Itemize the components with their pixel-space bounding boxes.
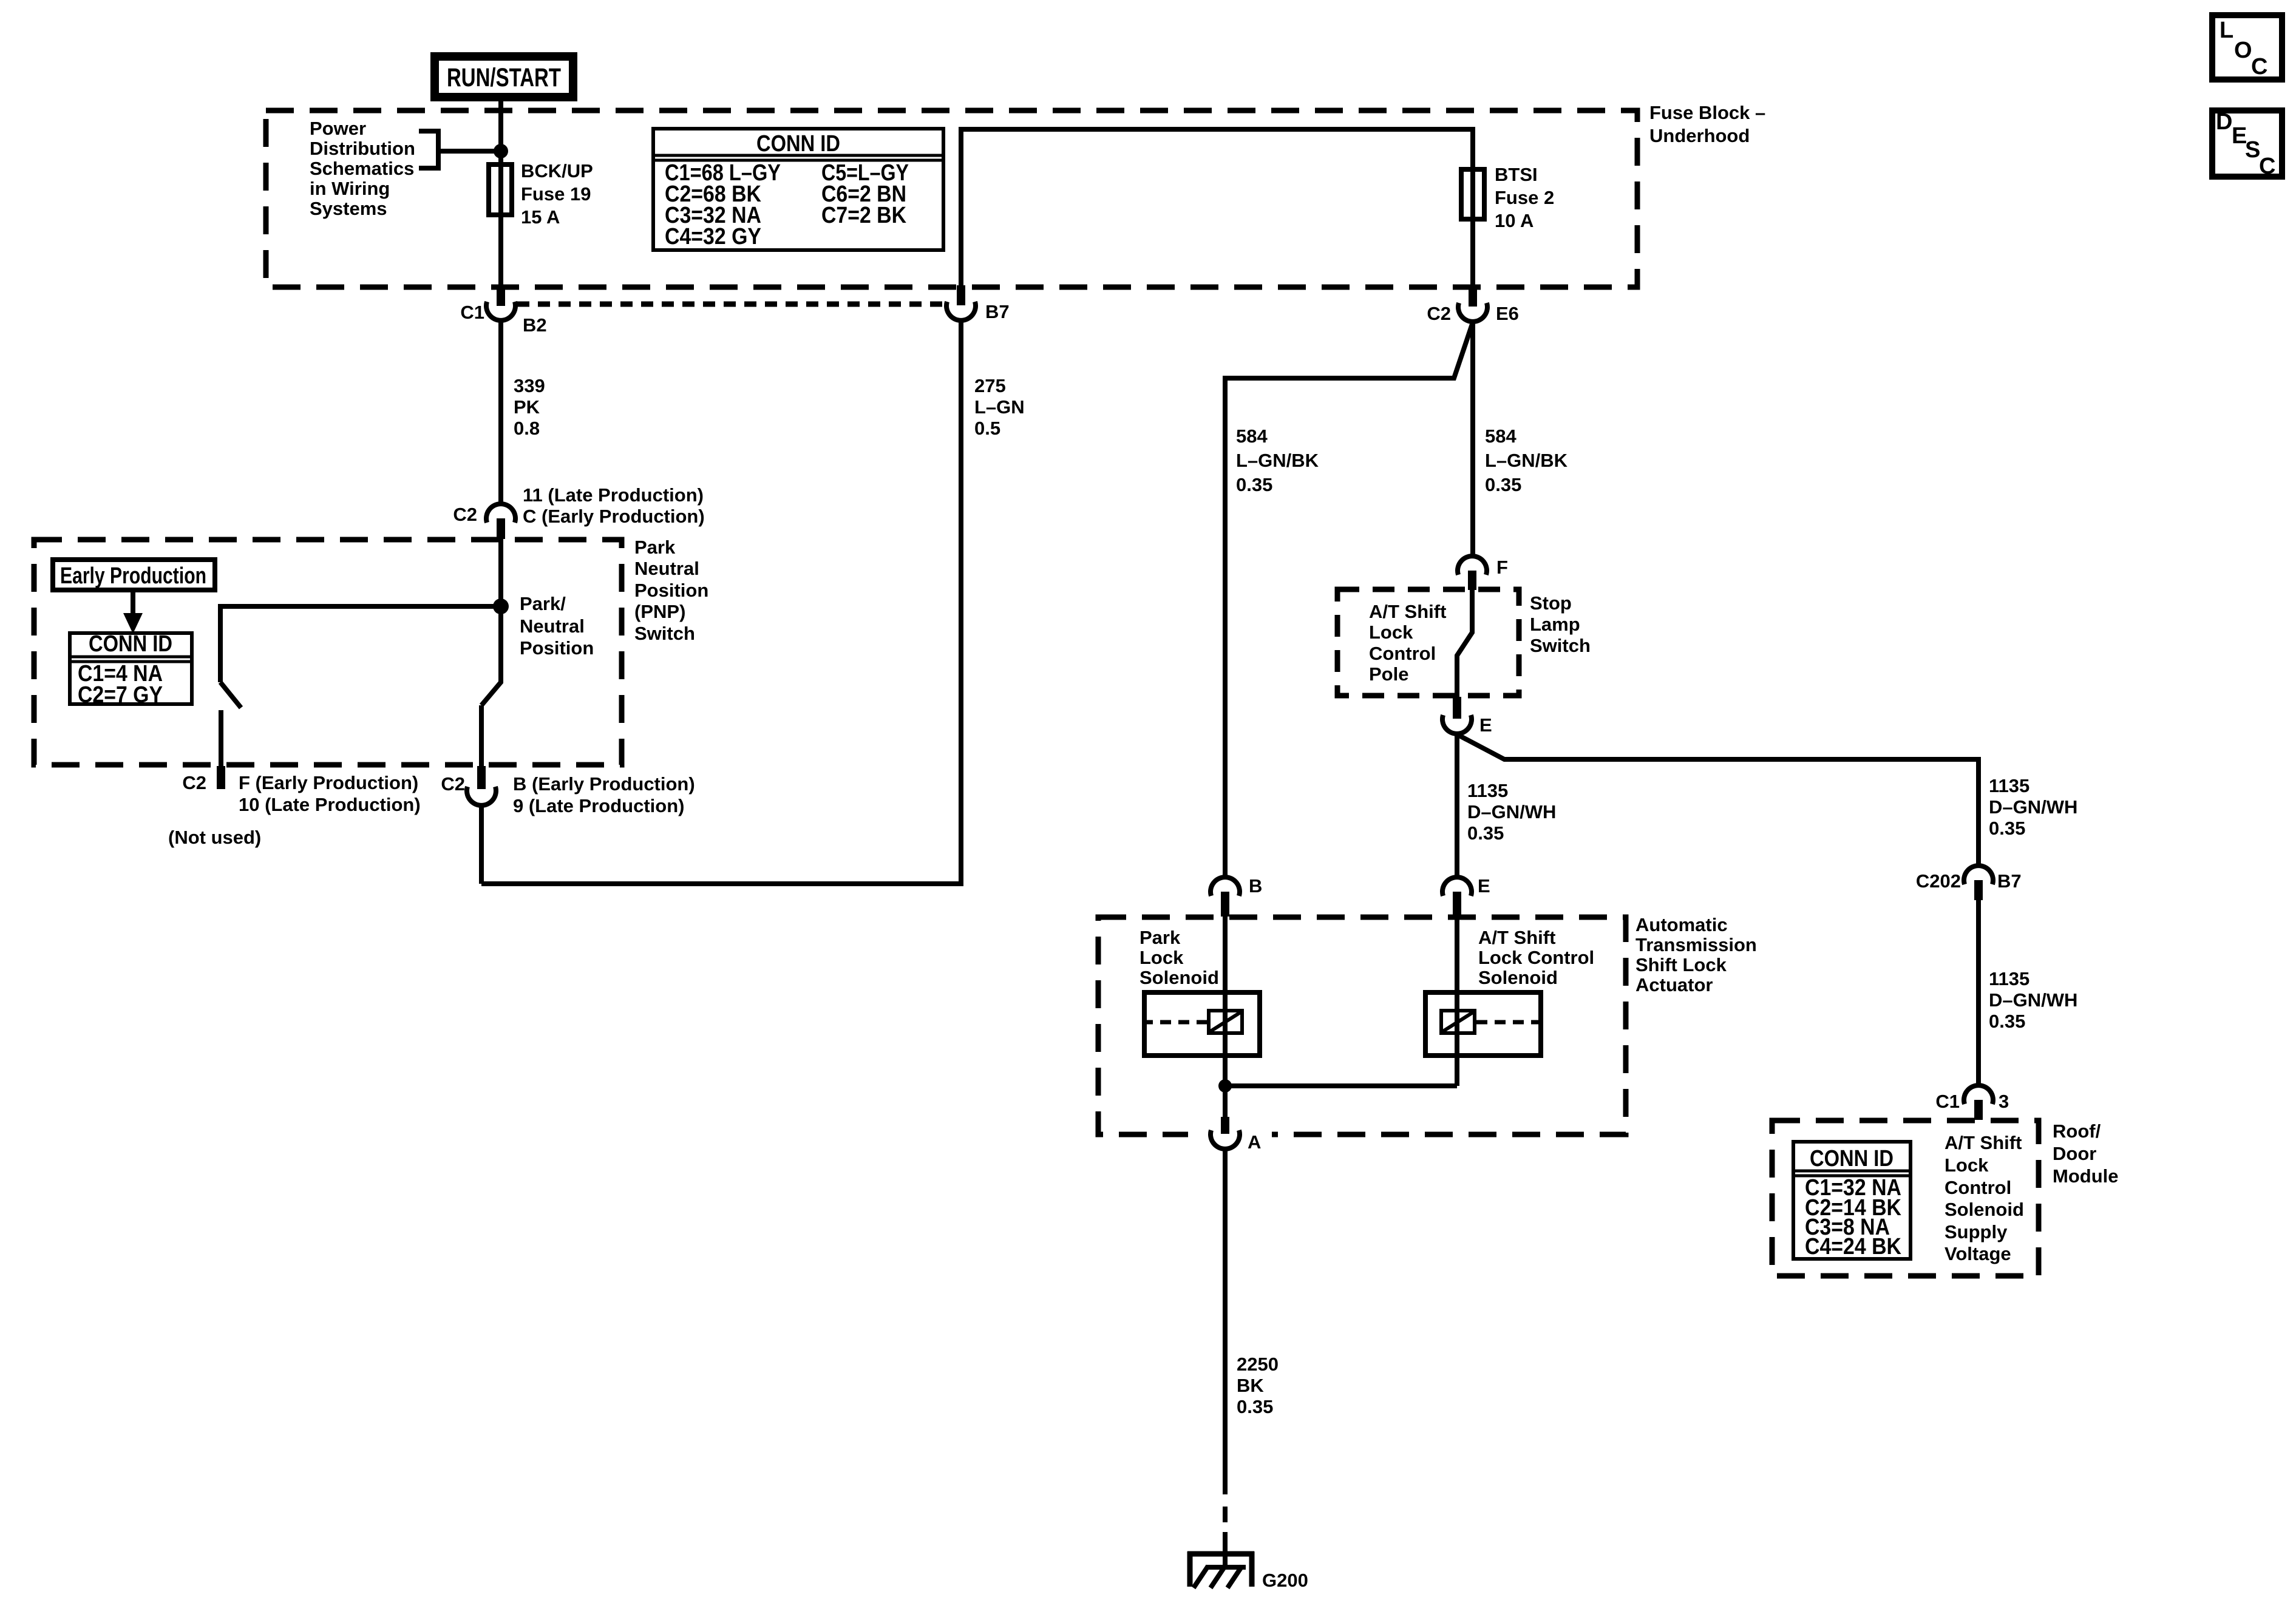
connector C1 pin 3 — [1935, 1085, 2009, 1120]
bracket for power distribution reference — [419, 131, 438, 168]
connector pin F (stop lamp switch) — [1458, 556, 1508, 590]
label BTSI Fuse 2 10 A — [1495, 164, 1554, 231]
svg-text:C2: C2 — [441, 773, 465, 795]
svg-text:D: D — [2216, 109, 2232, 135]
svg-text:C2: C2 — [453, 504, 477, 525]
svg-text:L–GN: L–GN — [974, 396, 1025, 418]
svg-text:F (Early Production): F (Early Production) — [239, 772, 418, 793]
wire ground feed — [1223, 1532, 1228, 1568]
svg-text:Solenoid: Solenoid — [1944, 1199, 2024, 1220]
wire 1135 D-GN/WH diagonal right to C202 — [1458, 735, 1978, 866]
svg-text:15 A: 15 A — [521, 206, 560, 228]
svg-text:Supply: Supply — [1944, 1221, 2008, 1242]
svg-text:RUN/START: RUN/START — [447, 63, 561, 92]
label A/T Shift Lock Control Pole — [1369, 601, 1446, 685]
svg-text:0.35: 0.35 — [1989, 818, 2025, 839]
svg-text:Lamp: Lamp — [1530, 614, 1580, 635]
connector C2 pin F (not used) — [168, 766, 421, 848]
wire 584 L-GN/BK vertical E6 to F — [1470, 321, 1475, 556]
svg-text:Position: Position — [634, 580, 708, 601]
svg-text:C4=32 GY: C4=32 GY — [665, 224, 761, 249]
svg-text:10 A: 10 A — [1495, 210, 1533, 231]
label Park Lock Solenoid — [1140, 927, 1219, 988]
wire PNP branch to early production pole — [220, 606, 501, 682]
wire RUN/START feed down — [498, 101, 503, 289]
svg-text:BTSI: BTSI — [1495, 164, 1538, 185]
label Park/Neutral Position — [520, 593, 594, 659]
svg-text:1135: 1135 — [1989, 968, 2029, 989]
svg-text:Switch: Switch — [634, 623, 695, 644]
svg-text:Position: Position — [520, 637, 594, 659]
label Stop Lamp Switch — [1530, 592, 1591, 656]
DESC index box — [2212, 109, 2282, 179]
svg-text:L–GN/BK: L–GN/BK — [1236, 450, 1319, 471]
label 1135 D-GN/WH 0.35 (right bottom) — [1989, 968, 2077, 1032]
svg-text:A/T Shift: A/T Shift — [1478, 927, 1555, 948]
label 275 L-GN 0.5 — [974, 375, 1025, 439]
svg-text:0.35: 0.35 — [1989, 1011, 2025, 1032]
svg-text:Underhood: Underhood — [1649, 125, 1750, 146]
svg-text:C2: C2 — [182, 772, 206, 793]
svg-text:C: C — [2259, 154, 2275, 179]
svg-text:O: O — [2234, 38, 2252, 63]
A/T shift lock control solenoid — [1425, 992, 1543, 1056]
connector pin E (actuator) — [1442, 875, 1490, 917]
svg-text:Shift Lock: Shift Lock — [1635, 954, 1727, 975]
svg-text:Voltage: Voltage — [1944, 1243, 2011, 1264]
svg-text:BCK/UP: BCK/UP — [521, 160, 593, 181]
svg-text:Fuse Block –: Fuse Block – — [1649, 102, 1765, 123]
wire pin B into park lock solenoid — [1223, 917, 1228, 1086]
connector pin E (stop lamp switch) — [1442, 697, 1492, 736]
svg-text:BK: BK — [1237, 1375, 1264, 1396]
svg-text:CONN ID: CONN ID — [1810, 1146, 1894, 1171]
svg-text:0.35: 0.35 — [1237, 1396, 1273, 1417]
switch blade PNP main — [481, 606, 501, 705]
svg-text:C2: C2 — [1427, 303, 1451, 324]
svg-text:B7: B7 — [985, 301, 1010, 322]
PNP switch dashed box — [34, 540, 622, 765]
connector C2 pin C (PNP input) — [453, 484, 704, 539]
svg-text:Schematics: Schematics — [310, 158, 414, 179]
wire pin E into A/T shift lock control solenoid — [1455, 917, 1459, 1086]
wire early production fixed contact — [219, 710, 223, 767]
CONN ID table (early production PNP) — [68, 631, 194, 708]
svg-text:B: B — [1249, 875, 1262, 897]
svg-text:D–GN/WH: D–GN/WH — [1989, 989, 2077, 1011]
wire 1135 D-GN/WH C202 to roof module — [1976, 900, 1981, 1085]
label Automatic Transmission Shift Lock Actuator — [1635, 914, 1757, 995]
svg-text:Stop: Stop — [1530, 592, 1572, 614]
fuse F2 BTSI 10A — [1461, 169, 1484, 219]
svg-text:Pole: Pole — [1369, 663, 1408, 685]
connector C2 pin E6 — [1427, 288, 1519, 324]
arrow from Early Production box — [131, 592, 135, 615]
svg-text:11 (Late Production): 11 (Late Production) — [523, 484, 704, 506]
wire PNP pin B down — [479, 804, 484, 884]
svg-text:L: L — [2220, 18, 2233, 43]
svg-text:0.8: 0.8 — [514, 418, 540, 439]
svg-text:CONN ID: CONN ID — [89, 631, 172, 657]
svg-text:A/T Shift: A/T Shift — [1369, 601, 1446, 622]
svg-text:C: C — [2251, 54, 2267, 80]
svg-text:B7: B7 — [1997, 870, 2022, 892]
ground G200 — [1187, 1551, 1308, 1591]
svg-text:E: E — [1478, 875, 1490, 897]
wire PNP input — [498, 539, 503, 606]
svg-text:339: 339 — [514, 375, 545, 396]
wire jumper between solenoids — [1225, 1083, 1457, 1088]
svg-text:Lock: Lock — [1140, 947, 1184, 968]
node PNP branch junction — [493, 598, 509, 614]
label Fuse Block Underhood — [1649, 102, 1765, 146]
svg-text:1135: 1135 — [1467, 780, 1508, 801]
svg-text:L–GN/BK: L–GN/BK — [1485, 450, 1568, 471]
wire 1135 D-GN/WH from E down to actuator — [1455, 733, 1459, 877]
fuse block underhood dashed box — [266, 110, 1637, 287]
svg-text:Switch: Switch — [1530, 635, 1591, 656]
label 584 L-GN/BK 0.35 (left) — [1236, 425, 1319, 495]
svg-text:Park: Park — [1140, 927, 1181, 948]
CONN ID table (fuse block) — [651, 129, 945, 250]
connector pin A — [1188, 1086, 1272, 1153]
park lock solenoid — [1142, 992, 1260, 1056]
svg-text:Power: Power — [310, 118, 366, 139]
wire 2250 BK to ground — [1223, 1148, 1228, 1494]
svg-text:Neutral: Neutral — [634, 558, 699, 579]
label A/T Shift Lock Control Solenoid — [1478, 927, 1594, 988]
svg-text:Control: Control — [1369, 643, 1436, 664]
power feed box RUN/START — [435, 56, 573, 97]
svg-text:Door: Door — [2053, 1143, 2096, 1164]
svg-text:Roof/: Roof/ — [2053, 1120, 2101, 1142]
roof/door module dashed box — [1772, 1120, 2039, 1276]
svg-text:Distribution: Distribution — [310, 138, 415, 159]
wire bracket to junction — [438, 149, 501, 154]
svg-text:(Not used): (Not used) — [168, 827, 261, 848]
svg-text:E: E — [1479, 714, 1492, 736]
svg-text:Actuator: Actuator — [1635, 974, 1713, 995]
svg-text:Systems: Systems — [310, 198, 387, 219]
svg-text:C7=2 BK: C7=2 BK — [821, 203, 906, 228]
connector C2 pin B — [441, 766, 695, 816]
node junction on RUN/START feed — [494, 144, 508, 158]
switch blade early production (open) — [220, 682, 241, 708]
svg-text:275: 275 — [974, 375, 1006, 396]
wire fuse block top run to BTSI — [961, 129, 1473, 290]
svg-text:(PNP): (PNP) — [634, 601, 685, 622]
node solenoid common junction — [1218, 1079, 1232, 1093]
svg-text:Fuse 19: Fuse 19 — [521, 183, 591, 205]
label Power Distribution Schematics in Wiring Systems — [310, 118, 415, 219]
svg-text:A/T Shift: A/T Shift — [1944, 1132, 2022, 1153]
svg-text:B (Early Production): B (Early Production) — [513, 773, 695, 795]
label 584 L-GN/BK 0.35 (right) — [1485, 425, 1568, 495]
svg-text:Solenoid: Solenoid — [1140, 967, 1219, 988]
svg-text:C1: C1 — [460, 302, 484, 323]
Early Production callout box — [53, 560, 215, 590]
svg-text:C1: C1 — [1935, 1091, 1960, 1112]
svg-text:in Wiring: in Wiring — [310, 178, 390, 199]
connector C1 pin B7 — [946, 285, 1010, 322]
svg-text:S: S — [2245, 137, 2260, 163]
wire 275 L-GN: B7 down, left to PNP pin B — [481, 319, 961, 884]
svg-text:0.35: 0.35 — [1236, 474, 1272, 495]
svg-text:Transmission: Transmission — [1635, 934, 1757, 955]
svg-text:Lock: Lock — [1369, 622, 1413, 643]
CONN ID table (roof/door module) — [1792, 1142, 1912, 1259]
svg-text:Solenoid: Solenoid — [1478, 967, 1558, 988]
svg-text:3: 3 — [1999, 1091, 2009, 1112]
svg-text:Fuse 2: Fuse 2 — [1495, 187, 1554, 208]
svg-text:Module: Module — [2053, 1165, 2119, 1187]
svg-text:Neutral: Neutral — [520, 615, 585, 637]
svg-text:PK: PK — [514, 396, 540, 418]
connector pin B (actuator) — [1211, 875, 1262, 917]
label Roof/Door Module — [2053, 1120, 2119, 1187]
svg-text:F: F — [1496, 557, 1508, 578]
svg-text:Early Production: Early Production — [60, 563, 206, 589]
svg-text:584: 584 — [1485, 425, 1517, 447]
wire dash segment to ground — [1223, 1507, 1228, 1522]
svg-text:Lock Control: Lock Control — [1478, 947, 1594, 968]
svg-text:Lock: Lock — [1944, 1154, 1989, 1176]
svg-text:CONN ID: CONN ID — [756, 131, 840, 157]
connector C1 pin B2 — [460, 288, 546, 336]
connector row dotted line C1 to B7 — [517, 302, 945, 307]
svg-text:B2: B2 — [523, 314, 547, 336]
svg-text:A: A — [1248, 1131, 1261, 1153]
svg-text:584: 584 — [1236, 425, 1268, 447]
svg-text:0.35: 0.35 — [1467, 822, 1504, 844]
label Park Neutral Position (PNP) Switch — [634, 537, 708, 644]
svg-text:C2=7 GY: C2=7 GY — [78, 682, 163, 708]
svg-text:Automatic: Automatic — [1635, 914, 1728, 935]
connector C202 pin B7 — [1916, 866, 2022, 900]
LOC index box — [2212, 15, 2282, 80]
label 339 PK 0.8 — [514, 375, 545, 439]
label A/T Shift Lock Control Solenoid Supply Voltage — [1944, 1132, 2024, 1264]
switch blade stop lamp — [1457, 590, 1472, 698]
wire PNP pole to pin B — [479, 705, 484, 767]
stop lamp switch dashed box — [1337, 589, 1519, 696]
actuator dashed box — [1098, 917, 1626, 1134]
svg-text:G200: G200 — [1262, 1570, 1308, 1591]
label 1135 D-GN/WH 0.35 (below E) — [1467, 780, 1556, 844]
svg-text:0.5: 0.5 — [974, 418, 1000, 439]
svg-text:D–GN/WH: D–GN/WH — [1467, 801, 1556, 822]
svg-text:C4=24 BK: C4=24 BK — [1805, 1234, 1901, 1259]
svg-text:0.35: 0.35 — [1485, 474, 1521, 495]
svg-text:C (Early Production): C (Early Production) — [523, 506, 705, 527]
svg-text:10 (Late Production): 10 (Late Production) — [239, 794, 421, 815]
wire 584 L-GN/BK diagonal from E6 — [1225, 322, 1473, 877]
svg-text:C202: C202 — [1916, 870, 1961, 892]
label BCK/UP Fuse 19 15 A — [521, 160, 593, 228]
svg-text:1135: 1135 — [1989, 775, 2029, 796]
label 2250 BK 0.35 — [1237, 1354, 1279, 1417]
fuse F19 BCK/UP 15A — [489, 164, 512, 215]
svg-text:2250: 2250 — [1237, 1354, 1279, 1375]
label 1135 D-GN/WH 0.35 (right top) — [1989, 775, 2077, 839]
svg-text:Control: Control — [1944, 1177, 2011, 1198]
svg-text:9 (Late Production): 9 (Late Production) — [513, 795, 684, 816]
svg-text:D–GN/WH: D–GN/WH — [1989, 796, 2077, 818]
svg-text:Park/: Park/ — [520, 593, 566, 614]
wire 339 PK: C1/B2 to PNP — [498, 320, 503, 504]
svg-text:Park: Park — [634, 537, 676, 558]
svg-text:E6: E6 — [1496, 303, 1519, 324]
